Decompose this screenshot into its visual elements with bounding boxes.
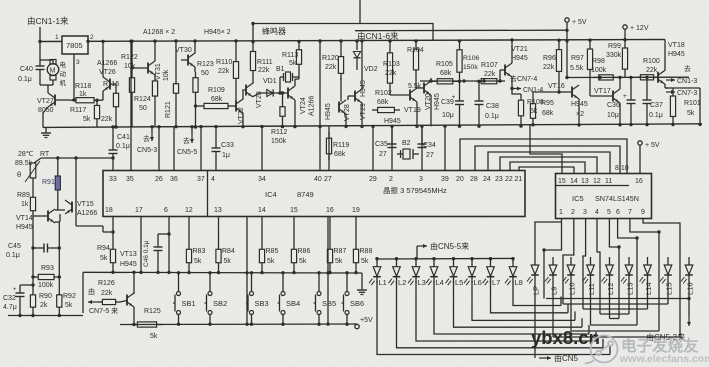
svg-text:C35: C35	[375, 141, 388, 148]
svg-text:R88: R88	[360, 248, 373, 255]
svg-text:16: 16	[326, 207, 334, 214]
svg-text:R94: R94	[97, 245, 110, 252]
svg-text:LP: LP	[531, 286, 540, 295]
wire left block top link to pin33	[41, 157, 113, 159]
wire IC5 pin3 drop	[583, 219, 586, 310]
arrow CN7-5	[88, 301, 98, 303]
svg-text:11: 11	[605, 178, 612, 185]
svg-text:IC5: IC5	[572, 194, 584, 203]
svg-text:R117: R117	[70, 107, 86, 114]
svg-text:H945× 2: H945× 2	[204, 29, 231, 36]
svg-text:B1: B1	[276, 66, 285, 73]
svg-text:L3: L3	[418, 278, 426, 287]
svg-text:R83: R83	[193, 248, 206, 255]
wire bus pin23 to IC5	[500, 157, 597, 174]
svg-text:由CN1-6来: 由CN1-6来	[357, 31, 399, 41]
resistor R102	[372, 109, 378, 111]
svg-text:9: 9	[641, 209, 645, 216]
push-button SB6	[345, 292, 349, 296]
svg-text:6: 6	[164, 207, 168, 214]
wire 7805 pin3	[73, 54, 75, 100]
wire VT26 emitter down	[102, 91, 104, 100]
thermistor RT	[34, 158, 41, 163]
svg-text:C41: C41	[117, 134, 130, 141]
svg-text:1k: 1k	[79, 91, 87, 98]
svg-text:5k: 5k	[150, 333, 158, 340]
svg-text:100k: 100k	[591, 67, 607, 74]
resistor R89	[32, 192, 34, 197]
wire VT21 collector	[511, 41, 513, 63]
regulator 7805	[62, 36, 88, 54]
wire secondary rail y81	[420, 80, 505, 82]
LED L5	[453, 259, 455, 267]
svg-text:+: +	[623, 93, 627, 100]
svg-text:2: 2	[90, 34, 94, 41]
svg-text:R123: R123	[197, 61, 214, 68]
wire VT19	[390, 94, 410, 96]
wire column x59 down	[58, 222, 60, 290]
push-button SB5	[317, 292, 321, 296]
wire L3 cathode route	[416, 281, 596, 341]
svg-text:4: 4	[595, 209, 599, 216]
svg-text:L5: L5	[455, 278, 463, 287]
svg-text:R124: R124	[134, 96, 151, 103]
resistor R103	[389, 41, 391, 53]
svg-text:R109: R109	[208, 87, 225, 94]
LED L12	[609, 257, 611, 265]
terminal +5V top	[565, 18, 569, 22]
svg-text:R107: R107	[481, 62, 498, 69]
svg-text:VT18: VT18	[668, 42, 685, 49]
svg-text:330k: 330k	[606, 52, 622, 59]
svg-text:2: 2	[389, 176, 393, 183]
wire SB5 to bottom rail	[318, 315, 320, 325]
resistor R108	[520, 94, 522, 100]
wire stub to SB6	[346, 273, 348, 292]
svg-text:6: 6	[616, 209, 620, 216]
svg-text:5k: 5k	[65, 302, 73, 309]
resistor R84	[218, 244, 220, 249]
svg-text:12: 12	[185, 207, 193, 214]
wire pin39 stub	[444, 126, 446, 171]
wire column x131	[130, 41, 132, 127]
svg-text:5k: 5k	[361, 258, 369, 265]
LED L4	[433, 259, 435, 267]
svg-text:17: 17	[135, 207, 143, 214]
wire pin18 branch left	[103, 231, 113, 233]
resistor R116	[115, 88, 117, 93]
transistor VT13	[126, 295, 128, 306]
svg-text:7: 7	[628, 209, 632, 216]
svg-text:L1: L1	[379, 278, 387, 287]
svg-text:+ 12V: + 12V	[630, 25, 649, 32]
resistor R124	[154, 75, 156, 81]
svg-text:C33: C33	[221, 142, 234, 149]
svg-text:4: 4	[211, 176, 215, 183]
wire C46 top link	[158, 233, 169, 235]
wire CN1-1 stub	[39, 27, 41, 42]
svg-text:L9: L9	[549, 287, 558, 295]
wire nest to L13	[600, 313, 629, 315]
svg-text:A1266: A1266	[97, 60, 117, 67]
svg-text:22k: 22k	[484, 71, 496, 78]
svg-text:5k: 5k	[194, 258, 202, 265]
svg-text:+5V: +5V	[360, 317, 373, 324]
push-button SB4	[281, 292, 285, 296]
resistor R96	[558, 41, 560, 50]
svg-text:+: +	[452, 94, 456, 101]
IC5 pin row divider	[556, 185, 630, 187]
svg-text:R106: R106	[463, 55, 479, 62]
svg-text:R87: R87	[334, 248, 347, 255]
svg-text:B2: B2	[402, 140, 411, 147]
wire VT17 collector	[619, 78, 621, 90]
svg-text:VD1: VD1	[263, 78, 277, 85]
svg-text:H945: H945	[360, 80, 367, 97]
svg-text:15: 15	[290, 207, 298, 214]
wire pin26 stub	[158, 127, 160, 171]
svg-text:R91: R91	[42, 179, 55, 186]
wire VT18 collector	[664, 40, 666, 71]
wire IC5 pin4 drop	[597, 219, 600, 315]
resistor R100	[636, 76, 640, 78]
svg-text:1: 1	[55, 34, 59, 41]
svg-text:14: 14	[258, 207, 266, 214]
svg-text:150k: 150k	[271, 138, 287, 145]
svg-text:去CN7-4: 去CN7-4	[510, 74, 537, 83]
wire top main +rail	[40, 40, 665, 42]
wire +5V stem	[566, 22, 568, 41]
svg-text:VT19: VT19	[404, 107, 421, 114]
wire VT30 base	[181, 59, 188, 61]
capacitor C38	[478, 81, 480, 101]
wire IC5 pin6 drop	[618, 219, 637, 326]
wire C32 top	[20, 284, 33, 286]
watermark elecfans logo	[585, 336, 618, 364]
wire VT29 collector	[361, 41, 363, 89]
svg-text:IC4: IC4	[265, 190, 277, 199]
svg-text:SB3: SB3	[255, 299, 269, 308]
svg-text:R90: R90	[39, 293, 52, 300]
transistor VT14	[47, 211, 49, 222]
svg-text:1: 1	[559, 209, 563, 216]
wire pin40 column full	[319, 41, 321, 171]
svg-text:L14: L14	[644, 282, 653, 295]
wire VT15 collector	[75, 200, 77, 226]
svg-text:由: 由	[88, 287, 95, 296]
wire L7 cathode route	[491, 281, 569, 313]
svg-text:68k: 68k	[211, 96, 223, 103]
resistor R86	[293, 244, 295, 249]
svg-text:100k: 100k	[38, 282, 54, 289]
LED L7	[490, 259, 492, 267]
svg-text:16: 16	[635, 178, 643, 185]
svg-text:5k: 5k	[335, 258, 343, 265]
svg-text:R97: R97	[571, 55, 584, 62]
svg-text:5k: 5k	[83, 116, 91, 123]
wire stub to SB2	[209, 273, 211, 292]
resistor R120	[340, 50, 342, 57]
svg-text:CN1-3: CN1-3	[677, 78, 697, 85]
resistor R117	[96, 100, 98, 105]
svg-text:12: 12	[593, 178, 601, 185]
wire VT31 collector	[154, 41, 156, 61]
wire IC5 pin9 drop	[643, 219, 680, 338]
svg-text:2k: 2k	[40, 302, 48, 309]
push-button SB3	[250, 292, 254, 296]
wire VT14-VT15 link	[55, 209, 65, 211]
resistor R95	[532, 98, 534, 104]
wire pin column R88	[355, 217, 357, 244]
wire motor-cap parallel	[40, 59, 53, 61]
wire VT26 collector	[102, 41, 104, 77]
svg-text:L16: L16	[685, 282, 694, 295]
wire L8 cathode route	[513, 281, 561, 306]
wire long column x328	[327, 217, 329, 325]
svg-text:SB6: SB6	[350, 299, 364, 308]
wire nest to L16	[546, 298, 689, 300]
svg-text:去: 去	[143, 134, 150, 143]
resistor R107	[476, 80, 481, 82]
wire L6 cathode route	[472, 281, 575, 320]
svg-text:R95: R95	[541, 100, 554, 107]
resistor R125	[131, 324, 137, 326]
wire nest to L10	[570, 281, 572, 331]
svg-text:R102: R102	[375, 90, 392, 97]
svg-text:VT30: VT30	[175, 47, 192, 54]
svg-text:机: 机	[60, 78, 67, 87]
svg-text:3: 3	[583, 209, 587, 216]
svg-text:35: 35	[126, 176, 134, 183]
wire nest to L15	[563, 303, 668, 305]
wire VT29 base	[348, 95, 355, 97]
svg-text:电: 电	[60, 60, 67, 69]
svg-text:CN5-5: CN5-5	[177, 149, 197, 156]
svg-text:19: 19	[352, 207, 360, 214]
svg-text:R110: R110	[216, 59, 232, 66]
svg-text:SB4: SB4	[286, 299, 300, 308]
wire bus pin24 to IC5	[488, 152, 610, 174]
svg-text:H945: H945	[384, 118, 401, 125]
svg-text:+ 5V: + 5V	[645, 142, 660, 149]
wire VT16 base	[558, 80, 560, 92]
svg-text:27: 27	[379, 151, 387, 158]
svg-text:R92: R92	[63, 293, 76, 300]
svg-text:34: 34	[258, 176, 266, 183]
svg-text:22k: 22k	[646, 67, 658, 74]
wire VT20 collector-emitter	[430, 78, 432, 81]
svg-text:R103: R103	[383, 61, 400, 68]
svg-text:22k: 22k	[325, 64, 337, 71]
svg-text:28℃: 28℃	[18, 151, 34, 158]
svg-text:C32: C32	[3, 295, 16, 302]
wire R116 bottom	[115, 112, 117, 127]
wire VT16 emitter	[578, 99, 580, 125]
resistor R94	[112, 244, 114, 249]
svg-text:28: 28	[470, 176, 478, 183]
wire left elbow to rail	[82, 272, 84, 313]
svg-text:R99: R99	[608, 43, 621, 50]
svg-text:5k: 5k	[687, 110, 695, 117]
LED L6	[471, 259, 473, 267]
svg-text:L11: L11	[587, 283, 596, 295]
wire L4 cathode route	[434, 281, 589, 334]
wire +5V column down	[566, 41, 568, 78]
svg-text:A1266: A1266	[77, 210, 97, 217]
svg-text:2: 2	[571, 209, 575, 216]
svg-text:C45: C45	[8, 243, 21, 250]
svg-text:20: 20	[456, 176, 464, 183]
resistor R122	[131, 41, 133, 72]
wire stub to SB3	[251, 273, 253, 292]
svg-text:68k: 68k	[542, 110, 554, 117]
resistor R101	[672, 88, 674, 96]
svg-text:10k: 10k	[163, 69, 170, 81]
wire VT14 base	[33, 215, 48, 217]
svg-text:SN74LS145N: SN74LS145N	[595, 194, 639, 203]
svg-text:5: 5	[607, 209, 611, 216]
wire L16 to CN5-3 arrow	[688, 299, 690, 318]
svg-text:VT28: VT28	[344, 104, 351, 121]
svg-text:39: 39	[441, 176, 449, 183]
wire +5V feed line	[355, 29, 567, 32]
svg-text:68k: 68k	[377, 99, 389, 106]
LED L2	[396, 259, 398, 267]
svg-text:VT13: VT13	[120, 251, 137, 258]
svg-text:0.1μ: 0.1μ	[116, 143, 130, 150]
wire VT17 base from R97	[589, 78, 591, 97]
wire VT24 emitter	[294, 100, 296, 127]
ground	[45, 128, 47, 133]
LED L1	[376, 259, 378, 267]
svg-text:R122: R122	[121, 54, 138, 61]
wire LP cathode to CN5	[534, 281, 536, 358]
svg-text:CN5-3: CN5-3	[137, 147, 157, 154]
IC U-IC5 SN74LS145N	[556, 174, 652, 219]
svg-text:R118: R118	[75, 83, 91, 90]
svg-text:由CN5-5来: 由CN5-5来	[430, 241, 469, 251]
svg-text:R121: R121	[165, 101, 172, 118]
svg-text:L6: L6	[474, 278, 482, 287]
push-button SB2	[208, 292, 212, 296]
IC U-IC4 8749	[103, 171, 525, 217]
svg-text:22k: 22k	[385, 70, 397, 77]
wire L16 cathode	[688, 281, 690, 299]
wire bus pin28 to IC5	[475, 146, 620, 174]
svg-text:22k: 22k	[101, 116, 113, 123]
push-button SB1	[177, 292, 181, 296]
svg-text:R116: R116	[103, 81, 119, 88]
resistor R104	[415, 41, 417, 49]
resistor R106	[459, 41, 461, 50]
svg-text:VD2: VD2	[364, 66, 378, 73]
wire VT22 emitter	[242, 113, 244, 127]
wire from top edge at x=360	[359, 0, 361, 24]
ground at R88 rail end	[361, 273, 363, 285]
wire bus pin22 to IC5	[510, 162, 585, 174]
resistor R98	[594, 76, 599, 78]
svg-text:VT31: VT31	[155, 63, 162, 80]
svg-text:22k: 22k	[258, 67, 270, 74]
wire pin27 column	[328, 127, 330, 171]
svg-text:27: 27	[426, 152, 434, 159]
svg-text:动: 动	[60, 70, 67, 78]
svg-text:+ 5V: + 5V	[572, 19, 587, 26]
svg-text:1μ: 1μ	[222, 152, 230, 159]
svg-text:L7: L7	[492, 278, 500, 287]
svg-text:15: 15	[558, 178, 566, 185]
svg-text:R100: R100	[643, 58, 660, 65]
svg-text:3: 3	[76, 59, 80, 66]
svg-text:R126: R126	[98, 280, 115, 287]
svg-text:×2: ×2	[576, 111, 584, 118]
svg-text:5k: 5k	[530, 108, 538, 115]
svg-text:R89: R89	[17, 192, 30, 199]
wire R95 top	[533, 92, 559, 98]
svg-text:5k: 5k	[100, 255, 108, 262]
wire VT31 base	[132, 67, 148, 69]
svg-text:0.1μ: 0.1μ	[6, 252, 20, 259]
svg-text:33: 33	[109, 176, 117, 183]
wire VT29 emitter	[361, 103, 363, 127]
terminal +5V bottom	[355, 324, 359, 328]
svg-text:由CN5: 由CN5	[554, 353, 579, 363]
svg-text:H945: H945	[434, 93, 441, 110]
wire pin35 stub	[130, 127, 132, 171]
resistor R92	[58, 290, 60, 295]
svg-text:A1266: A1266	[309, 96, 316, 116]
svg-text:C37: C37	[650, 102, 663, 109]
LED L9	[552, 257, 554, 265]
wire pin column R85	[261, 217, 263, 244]
svg-text:R120: R120	[322, 55, 339, 62]
svg-text:H945: H945	[668, 51, 685, 58]
resistor R121	[175, 80, 177, 84]
wire CN5-5 arrow feed	[416, 246, 418, 259]
wire R123 bottom	[195, 98, 197, 127]
wire pin3 stub	[421, 126, 423, 171]
LED L15	[667, 257, 669, 265]
wire bus pin20 to IC5	[460, 139, 627, 174]
wire VT15 collector column	[75, 158, 77, 200]
wire LED anode rail	[377, 257, 513, 260]
wire SB2 to bottom rail	[209, 315, 211, 325]
wire VT24 collector	[294, 79, 296, 86]
motor M 电动机	[52, 60, 54, 63]
svg-text:68k: 68k	[440, 70, 452, 77]
svg-text:CN7-5 来: CN7-5 来	[89, 307, 118, 315]
wire R112 column	[282, 93, 284, 103]
rail resistor-bottom common	[83, 271, 362, 274]
svg-text:蜂鸣器: 蜂鸣器	[262, 26, 286, 36]
wire bus pin21 to IC5	[519, 167, 574, 174]
svg-text:29: 29	[369, 176, 377, 183]
wire VT13 emitter	[133, 307, 135, 325]
svg-text:10μ: 10μ	[607, 112, 619, 119]
wire VT20 base	[415, 78, 417, 88]
wire LP anode elbow	[535, 222, 562, 257]
svg-text:10μ: 10μ	[442, 112, 454, 119]
LED L3	[415, 259, 417, 267]
svg-text:C36: C36	[607, 102, 620, 109]
wire bus to IC5 pin15	[530, 124, 562, 174]
svg-text:RT: RT	[40, 151, 50, 158]
svg-text:H945: H945	[16, 224, 33, 231]
wire left branch	[39, 42, 41, 61]
resistor R83	[188, 244, 190, 249]
wire VT21 base	[500, 69, 505, 71]
LED L14	[647, 257, 649, 265]
